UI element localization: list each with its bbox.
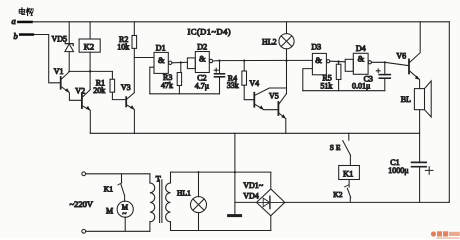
svg-text:V1: V1	[54, 67, 64, 76]
terminal circle bottom (220V b)	[82, 229, 86, 233]
svg-text:a: a	[12, 16, 16, 26]
wire 220V bottom	[86, 230, 150, 232]
svg-text:V2: V2	[75, 86, 85, 95]
wire secondary bottom	[171, 230, 271, 232]
svg-text:33k: 33k	[227, 81, 239, 90]
wire feedback rail 2	[303, 90, 385, 92]
svg-text:&: &	[199, 54, 206, 64]
svg-text:T: T	[156, 173, 162, 183]
svg-text:D1: D1	[156, 43, 166, 52]
svg-text:VD1~: VD1~	[243, 181, 264, 190]
wire 220V top	[86, 173, 150, 175]
wire right side vertical	[448, 22, 450, 202]
svg-text:BL: BL	[401, 95, 411, 104]
wire feedback rail 1	[150, 93, 220, 95]
svg-text:V4: V4	[249, 79, 259, 88]
svg-text:51k: 51k	[320, 82, 332, 91]
svg-text:~: ~	[122, 209, 126, 218]
junction dot	[89, 70, 91, 72]
svg-text:~220V: ~220V	[70, 199, 94, 209]
svg-text:K2: K2	[84, 41, 94, 51]
svg-text:V6: V6	[396, 52, 406, 61]
svg-text:HL1: HL1	[177, 189, 191, 198]
watermark	[431, 231, 460, 239]
svg-text:1000μ: 1000μ	[388, 166, 408, 175]
svg-text:0.01μ: 0.01μ	[352, 82, 370, 91]
wire top bus a	[33, 21, 450, 23]
wire signal line D2 out to D3	[220, 59, 313, 61]
svg-text:4.7μ: 4.7μ	[195, 82, 209, 91]
label 电极	[19, 8, 33, 16]
svg-text:47k: 47k	[161, 81, 173, 90]
svg-text:10k: 10k	[117, 42, 129, 51]
svg-text:V5: V5	[269, 91, 279, 100]
relay coil K1	[339, 166, 360, 180]
svg-text:VD4: VD4	[243, 191, 259, 200]
terminal circle top (220V a)	[82, 172, 86, 176]
svg-text:M: M	[106, 207, 113, 216]
svg-text:V3: V3	[121, 83, 131, 92]
svg-text:HL2: HL2	[262, 38, 277, 47]
svg-text:&: &	[315, 55, 322, 65]
svg-text:D3: D3	[311, 43, 321, 52]
wire upper rail	[90, 132, 419, 134]
relay coil K2	[79, 22, 100, 90]
svg-text:b: b	[14, 31, 18, 41]
svg-text:IC(D1~D4): IC(D1~D4)	[188, 26, 232, 36]
svg-text:K2: K2	[333, 190, 342, 199]
svg-text:D2: D2	[197, 43, 207, 52]
wire b to V1 base	[34, 35, 60, 83]
svg-text:K1: K1	[104, 185, 113, 194]
svg-text:S E: S E	[330, 143, 341, 152]
ground	[229, 133, 241, 215]
svg-text:D4: D4	[356, 44, 366, 53]
svg-text:&: &	[158, 55, 165, 65]
svg-text:&: &	[358, 53, 365, 63]
wire secondary top	[171, 171, 271, 173]
svg-text:K1: K1	[343, 168, 353, 178]
node wire VD5/V1/K2/R1	[69, 70, 112, 72]
wire bottom right rail	[285, 201, 450, 202]
svg-text:20k: 20k	[93, 86, 105, 95]
